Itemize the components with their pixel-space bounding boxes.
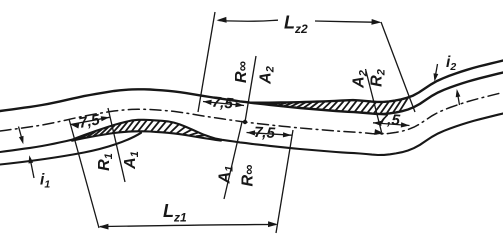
section line S1 (Lz1 left extension) [69,119,99,228]
dimension Lz2 line [219,20,380,22]
section line S6 (Lz1 right extension) [276,130,293,233]
cross-slope arrow left shaft [19,127,23,142]
label A1 at S3 [217,166,236,185]
widening band 2 hatch [265,98,408,114]
arrowheads of dimension 7,5 #2 [203,100,212,105]
section line S5a (A2 | R2) with axis arrowhead [366,69,382,132]
label A1 at S2 [122,151,141,170]
label Rinf at S4b [233,61,251,83]
label Rinf at S3 [240,165,258,187]
section line S3 (A1 | Rinf through inflection) [224,122,242,199]
section line S4a (Lz2 left extension) [198,12,215,112]
arrowheads of dimension Lz1 [99,224,109,230]
svg-text:7,5: 7,5 [254,124,276,142]
arrowheads of dimension Lz2 [217,17,227,23]
road axis centerline (dash-dot) [0,93,503,135]
road top edge line (left) continuing as original edge under band 2 [0,73,503,115]
cross-slope arrow i1 shaft [30,158,34,178]
section line S5b (Lz2 right extension) [381,22,415,112]
cross-slope arrowhead left [19,136,24,144]
label A2 at S5a [351,70,370,89]
widened top edge line of curve 2 [251,61,503,103]
cross-slope arrow i2 shaft [435,64,438,78]
label R1 [96,153,115,171]
cross-slope arrowhead i2 [434,73,439,81]
svg-text:7,5: 7,5 [211,94,234,113]
svg-text:R∞: R∞ [233,61,251,83]
dimension Lz1 line [100,225,276,227]
label R2 at S5a [369,69,388,87]
dimension 7,5 #2 line [203,102,244,106]
dimension 7,5 #4 line [373,123,410,126]
section line S4b (Rinf | A2) [245,56,256,122]
widening band 1 hatch [74,120,204,140]
arrowheads of dimension 7,5 #4 [373,121,382,126]
cross-slope arrow right shaft [457,92,459,105]
inner lower edge line / band 1 top boundary [0,114,503,156]
dimension 7,5 #3 line [247,133,292,136]
svg-text:R∞: R∞ [240,165,258,187]
section line S2 (R1 | A1) [108,108,125,182]
bottom shoulder line merging into band 1 [0,133,141,165]
label A2 at S4b [258,66,277,85]
inflection point dot [243,120,247,124]
axis arrowhead at end of S5a [374,129,384,135]
svg-text:7,5: 7,5 [378,111,401,129]
band 1 bottom boundary line [72,131,221,140]
cross-slope arrowhead right [456,89,461,97]
arrowheads of dimension 7,5 #1 [71,123,80,128]
arrowheads of dimension 7,5 #3 [247,130,256,135]
dimension 7,5 #1 line [71,117,110,124]
cross-slope arrowhead i1 [29,155,34,163]
